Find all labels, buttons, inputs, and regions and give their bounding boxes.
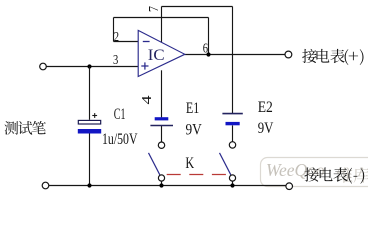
svg-text:E1: E1: [186, 100, 199, 117]
pin number 3: [113, 53, 118, 68]
battery E2 thin plate (positive, top): [222, 113, 242, 115]
switch K pole 2 blade: [220, 153, 232, 176]
label E1: [186, 100, 199, 117]
wire feedback right vertical to output: [208, 18, 210, 55]
battery E1 thin plate (positive, bottom): [150, 125, 173, 127]
wire pin 3 input horizontal: [46, 66, 138, 68]
wire E1 to switch stub: [161, 126, 163, 142]
op-amp non-inverting input plus sign: [141, 62, 148, 69]
wire feedback horizontal top: [114, 17, 209, 19]
svg-text:4: 4: [139, 95, 154, 104]
node output junction dot: [206, 52, 210, 56]
svg-text:1u/50V: 1u/50V: [102, 131, 138, 148]
pin number 4 (rotated): [139, 95, 154, 104]
wire E2 switch pole stub: [232, 181, 234, 186]
node bottom rail C1 junction dot: [87, 183, 91, 187]
battery E2 thick plate (negative, bottom): [226, 122, 240, 125]
capacitor C1 top plate: [78, 120, 100, 124]
wire output pin 6 horizontal: [185, 54, 285, 56]
capacitor C1 bottom plate: [78, 129, 101, 134]
svg-text:6: 6: [203, 41, 208, 56]
label E1 9V: [186, 121, 203, 138]
op-amp IC label: [148, 47, 165, 64]
wire bottom rail horizontal: [49, 185, 286, 187]
terminal circle bottom left (test pen): [42, 182, 49, 189]
label E2: [258, 99, 273, 116]
wire pin 4 vertical: [161, 70, 163, 117]
svg-text:IC: IC: [148, 47, 165, 64]
switch K pole 1 upper terminal circle: [158, 142, 164, 148]
op-amp inverting input minus sign: [143, 41, 150, 43]
switch K pole 2 upper terminal circle: [229, 142, 235, 148]
switch K pole 2 lower circle: [229, 175, 235, 181]
label E2 9V: [258, 120, 274, 137]
wire C1 bottom vertical: [89, 134, 91, 186]
terminal circle meter plus: [285, 51, 292, 58]
wire pin 2 input horizontal: [114, 41, 139, 43]
wire E2 to switch stub: [232, 125, 234, 141]
svg-text:9V: 9V: [258, 120, 274, 137]
node bottom rail E2 junction dot: [230, 183, 234, 187]
terminal circle input (test pen): [40, 63, 47, 70]
svg-text:E2: E2: [258, 99, 273, 116]
watermark box: [261, 158, 368, 187]
op-amp U1 IC triangle: [138, 30, 185, 76]
pin number 2: [114, 30, 119, 45]
label 1u/50V: [102, 131, 138, 148]
capacitor C1 plus mark: [92, 113, 97, 118]
wire pin 7 vertical: [161, 7, 163, 43]
label C1: [114, 106, 126, 123]
label 测试笔: [4, 121, 45, 135]
label 接电表(+): [302, 49, 363, 65]
terminal circle meter minus: [286, 183, 293, 190]
wire top V+ rail horizontal (pin7 to E2): [162, 6, 233, 8]
node pin3/C1 junction dot: [87, 64, 91, 68]
battery E1 thick plate (negative, top): [155, 117, 169, 120]
watermark WeeQoo text: [266, 160, 325, 180]
switch K pole 1 lower circle: [158, 175, 164, 181]
svg-text:K: K: [185, 155, 194, 172]
wire C1 top vertical: [89, 67, 91, 120]
watermark 维库 text: [337, 167, 368, 183]
svg-text:C1: C1: [114, 106, 126, 123]
svg-text:7: 7: [146, 6, 161, 12]
label K: [185, 155, 194, 172]
svg-text:9V: 9V: [186, 121, 203, 138]
node bottom rail E1 junction dot: [159, 183, 163, 187]
wire feedback left vertical: [113, 18, 115, 42]
svg-text:3: 3: [113, 53, 118, 68]
pin number 6: [203, 41, 208, 56]
wire E2 supply vertical: [232, 7, 234, 114]
svg-text:2: 2: [114, 30, 119, 45]
label 接电表(-): [304, 167, 364, 183]
pin number 7 (rotated): [146, 6, 161, 12]
wire E1 switch pole stub: [161, 181, 163, 186]
switch K pole 1 blade: [149, 153, 161, 176]
switch K linkage dashed line: [167, 174, 226, 176]
